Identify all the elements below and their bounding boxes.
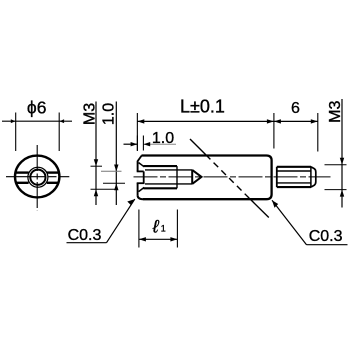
body left face lower: [137, 183, 139, 195]
body outline top bottom right: [142, 156, 272, 200]
dimension phi6 arrowheads: [11, 119, 64, 123]
label M3 right rotated: [327, 100, 344, 122]
dimension 1.0 top extension lines: [137, 136, 143, 151]
side view centerline: [134, 176, 331, 178]
dimension 6 text: [291, 100, 300, 117]
chamfer note C0.3 right underline: [307, 244, 348, 246]
dimension l1 extension lines: [139, 210, 178, 248]
dimension phi6 line: [2, 120, 72, 122]
dimension M3 right vertical line: [341, 99, 343, 208]
drill cone: [192, 170, 201, 184]
dimension 6 right extension line: [317, 113, 319, 152]
label M3 left rotated: [82, 103, 99, 125]
end view slot lower edge: [16, 182, 59, 184]
dimension 6 line: [274, 120, 318, 122]
slot lower edge: [137, 182, 145, 184]
end view slot upper edge: [16, 171, 59, 173]
dimension phi6 text: [27, 98, 47, 118]
tapped hole major bottom line: [144, 187, 178, 189]
diagonal break line dashed middle: [206, 155, 250, 199]
body top-left chamfer: [138, 156, 142, 162]
dimension M3 left vertical line: [95, 102, 97, 206]
thread entry chamfer bottom: [139, 187, 145, 191]
chamfer note C0.3 left text: [68, 227, 102, 244]
stud minor top line: [278, 170, 312, 172]
svg-text:ℓ: ℓ: [152, 216, 160, 236]
dimension M3 left arrowheads: [94, 159, 98, 196]
dimension L arrowheads: [137, 119, 274, 123]
dimension phi6 extension lines: [16, 113, 60, 152]
dimension l1 line: [139, 238, 178, 240]
stud minor bottom line: [278, 182, 312, 184]
dimension M3 left extension ticks: [91, 166, 115, 189]
svg-text:1: 1: [161, 223, 166, 233]
slot top edge: [137, 170, 144, 172]
diagonal break line solid upper: [190, 139, 206, 155]
end view thread major thin circle: [28, 167, 48, 187]
dimension 6 arrowheads: [274, 119, 318, 123]
svg-text:ϕ6: ϕ6: [27, 98, 47, 118]
end view vertical centerline: [36, 145, 38, 211]
end view horizontal centerline: [6, 176, 69, 178]
dimension 1.0 left arrowheads: [114, 165, 118, 191]
svg-text:C0.3: C0.3: [68, 227, 102, 244]
tapped hole minor top line: [145, 169, 192, 171]
svg-text:M3: M3: [327, 100, 344, 122]
slot bottom vertical: [143, 171, 145, 183]
dimension 1.0 left vertical line: [115, 102, 117, 206]
svg-text:L±0.1: L±0.1: [180, 97, 225, 117]
dimension 1.0 left extension ticks: [101, 171, 125, 183]
stud major bottom line: [277, 186, 311, 188]
stud base vertical: [276, 167, 278, 187]
stud chamfer vertical: [310, 167, 312, 187]
chamfer note C0.3 right leader: [272, 200, 307, 245]
dimension l1 arrowheads: [139, 237, 178, 241]
dimension M3 right arrowheads: [340, 158, 344, 197]
drill cone base vertical: [191, 170, 193, 184]
dimension 1.0 top text: [152, 130, 174, 147]
end view thread minor thick circle: [30, 170, 45, 185]
dimension L right extension line: [273, 113, 275, 149]
svg-text:C0.3: C0.3: [309, 228, 343, 245]
dimension L line: [137, 120, 274, 122]
diagonal break line solid lower: [250, 199, 269, 218]
dimension L left extension line: [136, 113, 138, 151]
dimension 1.0 top line right tail with arrow: [143, 142, 176, 146]
dimension 1.0 top line left part with arrow: [124, 142, 138, 146]
stud major top line: [277, 166, 311, 168]
svg-text:6: 6: [291, 100, 300, 117]
tapped hole minor bottom line: [145, 183, 192, 185]
label 1.0 left rotated: [100, 103, 117, 125]
end view outer circle: [15, 156, 59, 198]
chamfer note C0.3 left underline: [67, 242, 107, 244]
stud end cap: [311, 167, 316, 187]
chamfer note C0.3 left leader: [107, 199, 135, 243]
thread entry chamfer top: [139, 163, 145, 167]
tapped hole major top line: [144, 165, 178, 167]
body left face upper: [137, 161, 139, 172]
dimension M3 right extension lines: [325, 165, 347, 190]
chamfer note C0.3 right text: [309, 228, 343, 245]
svg-text:1.0: 1.0: [100, 103, 117, 125]
dimension L plusminus 0.1 text: [180, 97, 225, 117]
dimension l1 text: [152, 216, 166, 236]
thread end vertical: [176, 166, 178, 188]
body bottom-left rounded corner: [138, 195, 143, 199]
